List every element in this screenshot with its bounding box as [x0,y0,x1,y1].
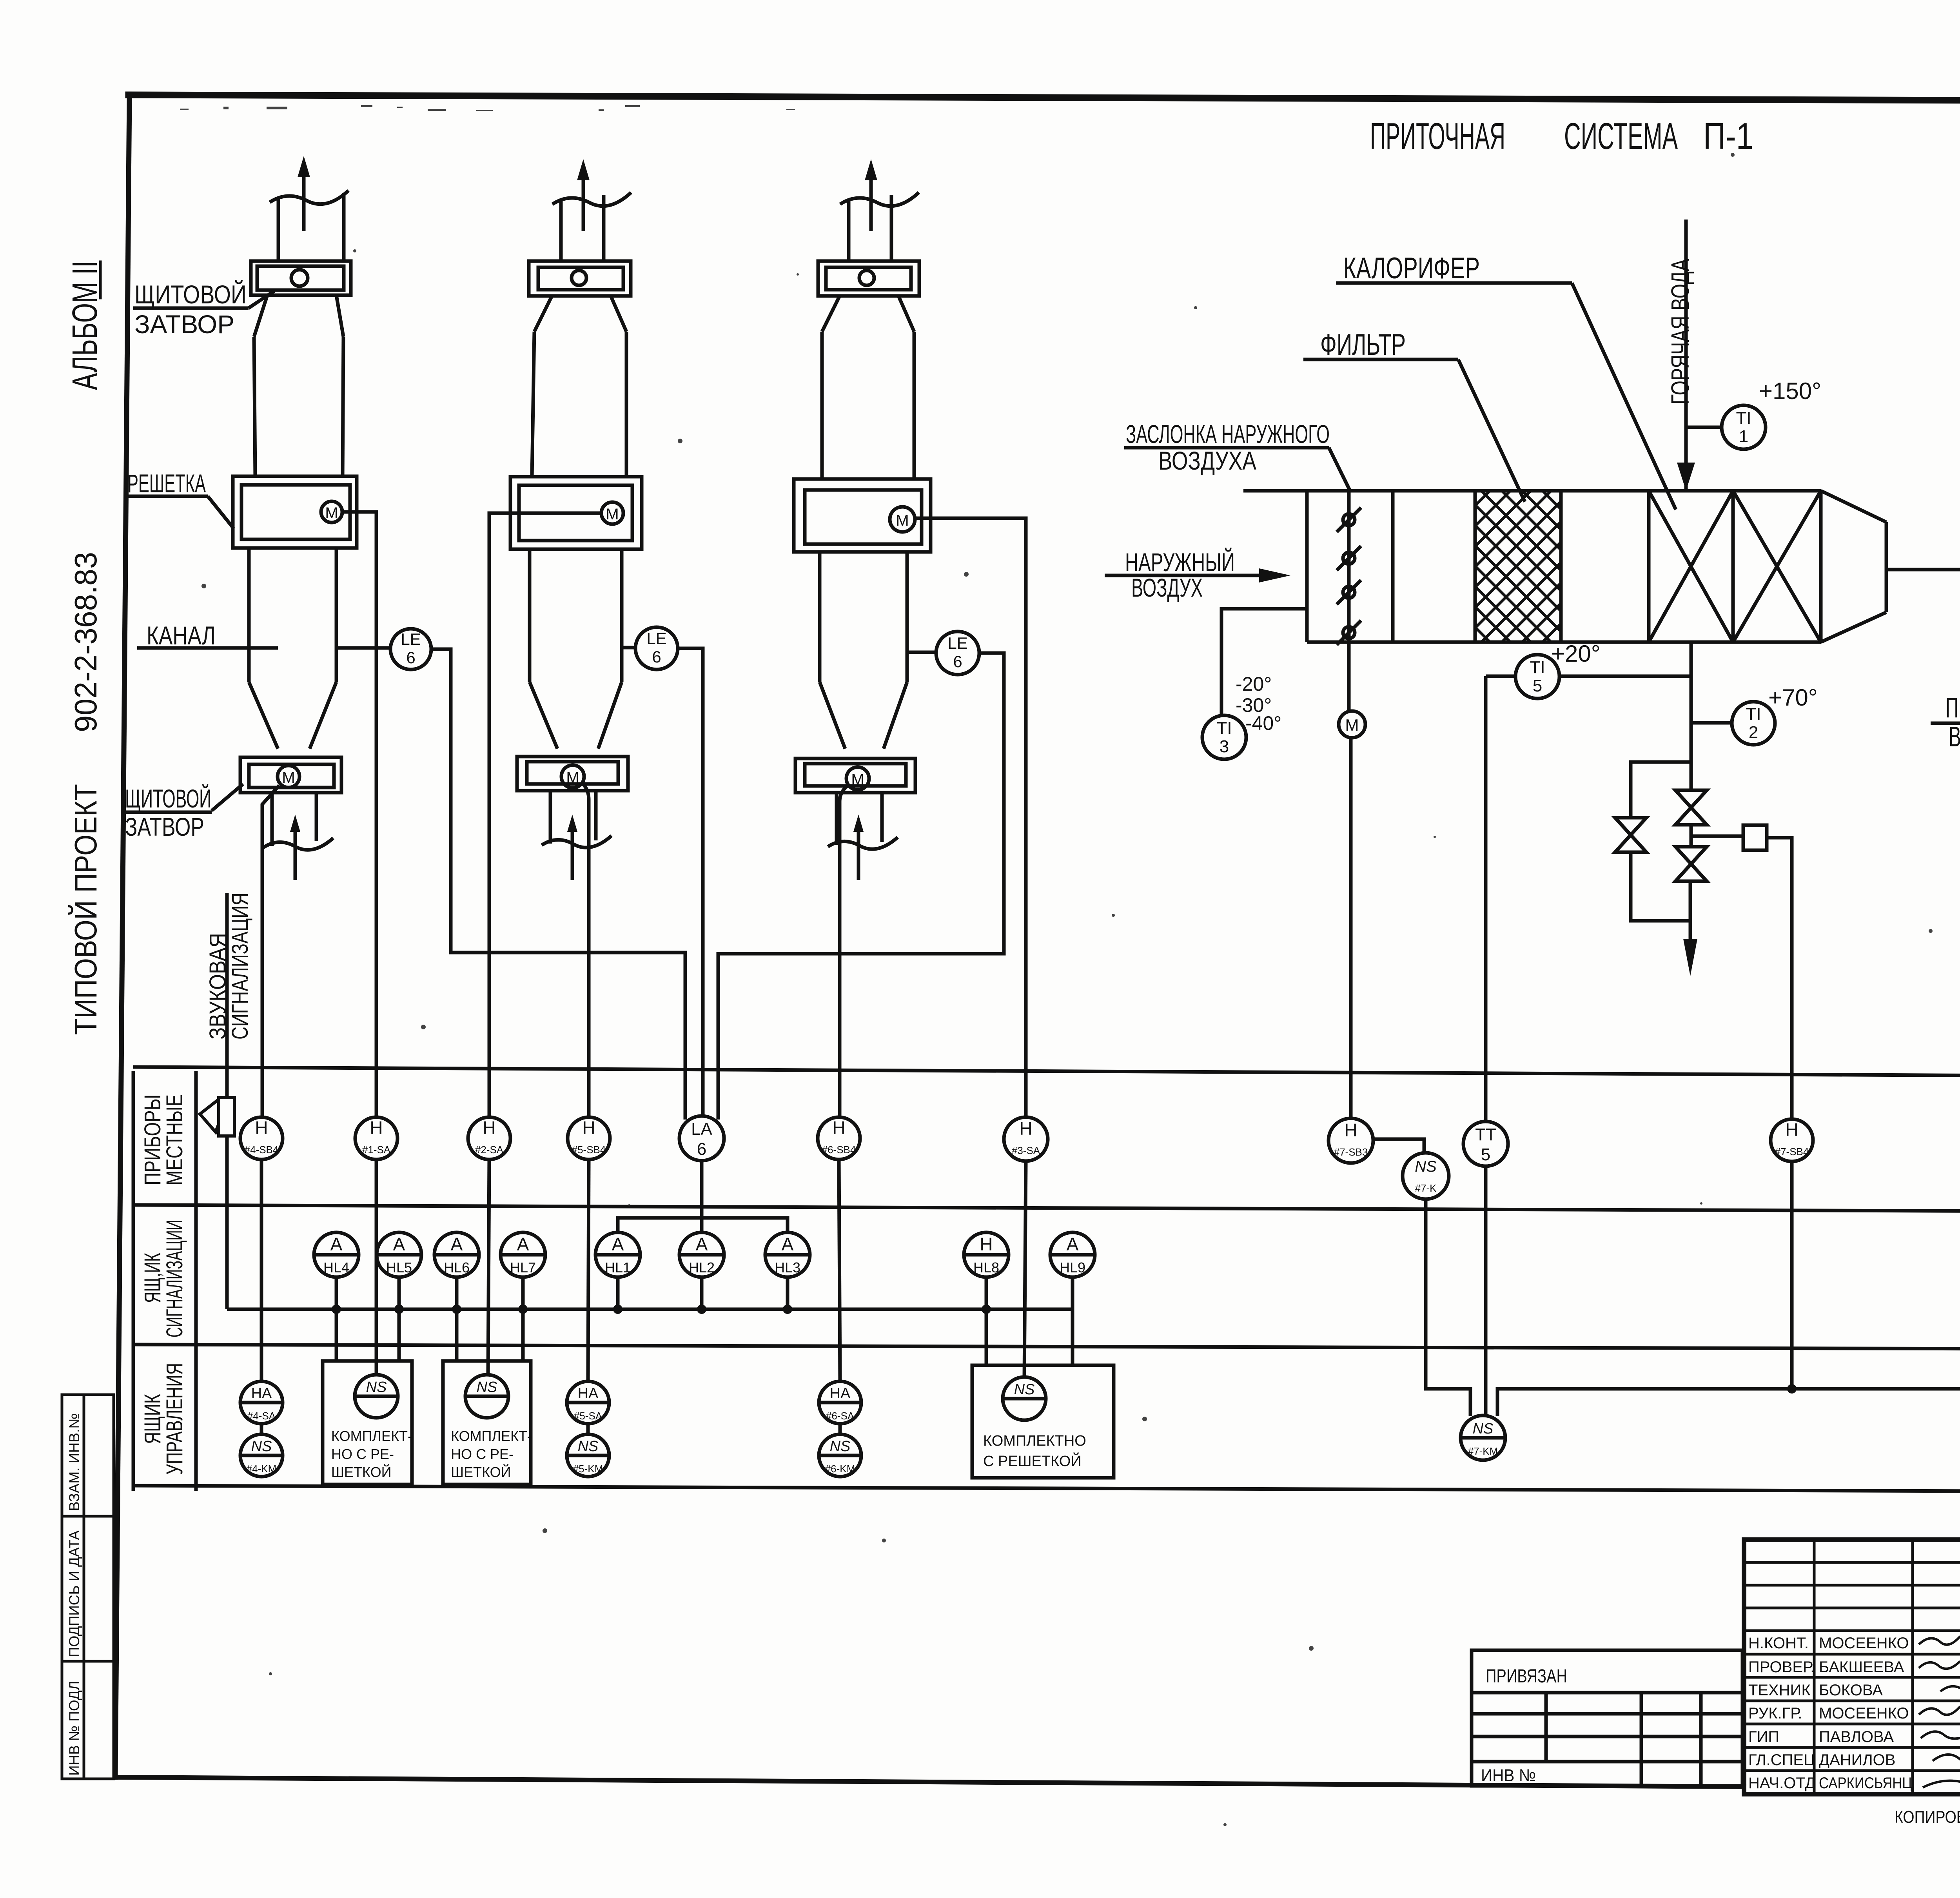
col1 gate valve (щитовой затвор) top [251,261,351,295]
svg-text:ЗАТВОР: ЗАТВОР [125,812,204,841]
wire col1 grille M to band [342,512,376,1118]
svg-text:HL3: HL3 [775,1259,800,1276]
col2 bottom duct [542,791,612,847]
row label Ящик управления [140,1363,187,1475]
grille column 3 [794,159,1026,1118]
bracket over HL1-HL3 [618,1218,788,1232]
svg-text:HA: HA [830,1385,851,1402]
col2 grille motor M [601,502,623,524]
svg-text:ШЕТКОЙ: ШЕТКОЙ [331,1464,391,1480]
svg-text:ГЛ.СПЕЦ: ГЛ.СПЕЦ [1748,1751,1815,1769]
lamp A HL5 [377,1232,421,1277]
svg-text:Н.КОНТ.: Н.КОНТ. [1748,1635,1809,1652]
col3 gate valve top [818,261,919,296]
audible alarm label звуковая сигнализация [205,893,253,1040]
col2 upper body [532,332,626,477]
col1 gate valve bottom [240,757,341,793]
title block grid left [1744,1540,1960,1794]
svg-text:ФИЛЬТР: ФИЛЬТР [1320,328,1406,361]
wire LE2 to LA6 [678,648,703,1117]
instrument H #7-SB3 [1328,1118,1373,1163]
label Щитовой затвор top [133,279,274,339]
row label Приборы местные [140,1094,187,1185]
svg-text:A: A [612,1234,624,1254]
svg-text:#7-K: #7-K [1415,1182,1437,1194]
svg-text:#7-SB3: #7-SB3 [1334,1146,1368,1158]
wire damper M to band [1349,738,1353,1118]
annunciator HA #4-SA [240,1381,283,1424]
svg-text:ЩИТОВОЙ: ЩИТОВОЙ [134,279,247,309]
label Канал [137,621,278,650]
svg-text:УПРАВЛЕНИЯ: УПРАВЛЕНИЯ [162,1363,187,1475]
grille column 2 [489,159,642,1118]
bypass branch [1631,762,1691,818]
svg-text:ГОРЯЧАЯ ВОДА: ГОРЯЧАЯ ВОДА [1666,259,1694,405]
wire col3 bottom gate M to band [840,786,848,1118]
lamp A HL7 [501,1232,545,1277]
col2 grille box [510,477,642,549]
svg-text:ВОЗДУХ: ВОЗДУХ [1131,573,1203,602]
svg-text:КАНАЛ: КАНАЛ [147,621,216,650]
svg-text:ПРОВЕР.: ПРОВЕР. [1748,1658,1815,1676]
svg-text:#7-SB4: #7-SB4 [1775,1146,1809,1158]
TITLEBLOCK [1472,1540,1960,1832]
level sensor LE 6 column 3 [908,631,979,675]
wire LE3 to LA6 [718,653,1004,1120]
svg-text:БАКШЕЕВА: БАКШЕЕВА [1819,1658,1904,1676]
bottom border [115,1777,1744,1787]
svg-text:HA: HA [251,1385,272,1402]
svg-text:5: 5 [1533,676,1542,695]
svg-text:TI: TI [1736,408,1751,428]
heater cross 2 [1733,491,1821,642]
svg-text:#2-SA: #2-SA [475,1144,504,1156]
svg-text:ТИПОВОЙ ПРОЕКТ: ТИПОВОЙ ПРОЕКТ [68,784,103,1035]
stamp box Инв № подл [62,1661,84,1779]
wire NS7K down [1426,1199,1470,1416]
svg-text:ИНВ № ПОДЛ: ИНВ № ПОДЛ [66,1681,82,1776]
svg-text:LE: LE [401,630,421,648]
svg-text:КОМПЛЕКТ-: КОМПЛЕКТ- [331,1428,412,1444]
svg-text:6: 6 [953,652,962,671]
svg-text:НАЧ.ОТД: НАЧ.ОТД [1748,1775,1816,1792]
svg-text:6: 6 [697,1140,706,1159]
instrument H #1-SA [355,1117,397,1159]
drain line with arrow [1683,881,1697,976]
thermometer TI 5 [1486,641,1691,699]
label Калорифер with leader [1336,252,1676,510]
link H7SB3 to NS7K [1373,1139,1424,1153]
svg-text:HL8: HL8 [973,1259,999,1276]
svg-text:САРКИСЬЯНЦ: САРКИСЬЯНЦ [1819,1775,1912,1792]
svg-text:LE: LE [947,634,967,652]
instrument H #5-SB4 [568,1117,610,1159]
svg-text:6: 6 [406,648,415,667]
svg-text:ИНВ №: ИНВ № [1481,1766,1536,1785]
svg-text:ДАНИЛОВ: ДАНИЛОВ [1819,1751,1895,1769]
label Приточный вентилятор [1931,599,1960,753]
svg-text:LA: LA [691,1120,712,1139]
svg-text:#4-SB4: #4-SB4 [245,1144,279,1156]
lamp A HL2 [679,1232,724,1277]
col3 gate valve bottom [795,758,915,793]
svg-text:NS: NS [366,1379,387,1395]
svg-text:МЕСТНЫЕ: МЕСТНЫЕ [162,1094,187,1185]
damper motor M [1339,711,1365,738]
svg-text:H: H [582,1118,595,1138]
fan suction line [1886,568,1960,572]
svg-text:МОСЕЕНКО: МОСЕЕНКО [1819,1635,1909,1652]
svg-text:#1-SA: #1-SA [362,1144,391,1156]
col3 bottom gate motor M [846,767,869,790]
starter NS #5-KM [567,1434,609,1477]
svg-text:TI: TI [1746,704,1761,724]
col3 top duct [840,192,919,262]
svg-text:H: H [370,1118,383,1138]
col3 lower funnel [820,682,907,749]
col1 grille box (решетка) [233,476,357,548]
col2 gate valve top [529,261,631,296]
col1 top flow arrow [298,156,310,231]
BAND [133,1067,1960,1493]
control bus row3 right [1497,1389,1960,1416]
col3 upper body [822,332,914,479]
label Фильтр with leader [1303,328,1525,502]
left border [115,96,129,1777]
wire H3SA to NS box3 [1024,1161,1026,1377]
svg-text:НО С РЕ-: НО С РЕ- [331,1446,394,1462]
col3 top flow arrow [865,159,877,231]
outside air thermometer connection [1221,609,1307,716]
svg-text:СИСТЕМА: СИСТЕМА [1564,115,1678,157]
svg-text:2: 2 [1749,723,1758,742]
svg-text:HL9: HL9 [1060,1259,1085,1276]
svg-text:NS: NS [251,1438,272,1455]
svg-text:HL2: HL2 [689,1259,715,1276]
annunciator HA #6-SA [819,1381,861,1424]
svg-text:A: A [782,1234,794,1254]
wire LE1 to LA6 [431,649,685,1120]
label Решетка [126,469,234,528]
bypass return [1631,852,1690,921]
wire LA6 to HL2 [700,1161,704,1232]
col1 bottom duct [263,793,333,850]
svg-text:HL5: HL5 [386,1259,412,1276]
annunciator HA #5-SA [567,1381,609,1424]
lamp drop wires [336,1277,1073,1365]
signatures [1919,1633,1960,1788]
svg-text:5: 5 [1481,1145,1490,1164]
svg-text:#6-KM: #6-KM [825,1463,855,1475]
привязан labels [1481,1666,1567,1785]
wire TI5 to TT5 [1484,676,1488,1122]
svg-text:NS: NS [477,1379,497,1395]
svg-text:СИГНАЛИЗАЦИЯ: СИГНАЛИЗАЦИЯ [227,893,253,1040]
title block outer [1744,1540,1960,1794]
col2 lower body [530,549,622,682]
svg-text:ЗАТВОР: ЗАТВОР [134,310,234,339]
wire valve line through band [1790,1161,1794,1389]
instrument NS #7-K [1403,1153,1449,1199]
col2 upper funnel [534,296,626,332]
svg-text:H: H [1785,1120,1798,1140]
instrument TT 5 [1463,1121,1508,1166]
svg-text:КАЛОРИФЕР: КАЛОРИФЕР [1343,252,1480,285]
stamp box Подпись и дата [62,1516,84,1661]
COLUMNS [124,156,1026,1136]
svg-text:#4-SA: #4-SA [247,1410,276,1422]
svg-text:КОПИРОВАЛ: КОПИРОВАЛ [1895,1807,1960,1827]
svg-text:КОМПЛЕКТНО: КОМПЛЕКТНО [983,1433,1086,1449]
wire H2SA to NS box2 [488,1159,489,1375]
thermometer TI 1 [1686,378,1821,449]
wire col1 bottom gate M to band [262,786,279,1118]
wire col2 grille M to band [489,513,601,1118]
row label Ящик сигнализации [140,1220,187,1337]
svg-text:М: М [851,771,864,788]
svg-text:H: H [483,1118,495,1138]
svg-text:ПАВЛОВА: ПАВЛОВА [1819,1728,1894,1746]
col2 bottom flow arrow [567,815,577,880]
svg-text:HL7: HL7 [510,1259,536,1276]
col3 lower body [820,552,907,682]
AHU [1105,220,1960,1389]
svg-text:КОМПЛЕКТ-: КОМПЛЕКТ- [451,1428,532,1444]
instrument H #3-SA [1004,1117,1048,1161]
svg-text:3: 3 [1220,737,1229,756]
col1 upper funnel [254,295,343,337]
svg-text:ВЕНТИЛЯТОР: ВЕНТИЛЯТОР [1949,721,1960,753]
control valve upper [1675,790,1707,825]
svg-text:М: М [325,504,338,522]
svg-text:ЩИТОВОЙ: ЩИТОВОЙ [125,784,211,813]
svg-text:МОСЕЕНКО: МОСЕЕНКО [1819,1705,1909,1722]
svg-text:NS: NS [1415,1158,1437,1175]
valve actuator line [1691,835,1743,838]
label горячая вода (rotated) [1666,259,1694,405]
col1 grille motor M [321,501,342,523]
svg-text:АЛЬБОМ II: АЛЬБОМ II [65,261,105,390]
lamp A HL9 [1050,1232,1095,1277]
svg-text:1: 1 [1739,427,1748,446]
top border [129,95,1960,102]
svg-text:TI: TI [1216,719,1232,738]
staff rows [1748,1635,1912,1792]
svg-text:#5-KM: #5-KM [573,1463,603,1475]
svg-text:БОКОВА: БОКОВА [1819,1682,1883,1699]
instrument H #2-SA [468,1117,510,1159]
svg-text:ПРИТОЧНЫЙ: ПРИТОЧНЫЙ [1945,691,1960,724]
lamp A HL4 [314,1232,359,1277]
wire H1SA to NS box1 [375,1159,378,1375]
svg-text:LE: LE [646,629,666,648]
label Заслонка наружного воздуха with leader [1124,419,1351,492]
копировал line [1895,1804,1960,1832]
svg-text:A: A [517,1234,529,1254]
svg-text:NS: NS [578,1438,599,1455]
grille column 1 [233,156,376,1118]
AHU casing [1243,491,1821,642]
svg-text:ВОЗДУХА: ВОЗДУХА [1158,446,1256,475]
col2 lower funnel [530,682,622,749]
col3 grille motor M [890,507,915,532]
svg-text:С РЕШЕТКОЙ: С РЕШЕТКОЙ [983,1452,1082,1470]
svg-text:#6-SA: #6-SA [826,1410,855,1422]
svg-text:A: A [1067,1234,1079,1254]
svg-text:М: М [896,512,909,529]
thermometer TI 3 [1202,673,1281,759]
lamp H HL8 [964,1232,1009,1277]
col2 top flow arrow [577,159,590,231]
instrument LA 6 [679,1116,724,1161]
svg-text:#3-SA: #3-SA [1012,1145,1040,1156]
col2 top duct [552,192,631,262]
svg-text:H: H [1344,1120,1357,1140]
col2 bottom gate motor M [561,765,584,788]
label Щитовой затвор bottom [124,784,243,841]
control box 1 комплектно с решеткой [323,1361,412,1484]
svg-text:H: H [980,1234,993,1254]
svg-text:6: 6 [652,648,661,666]
wire col3 grille M to band [915,518,1026,1118]
stamp box Взам.инв№ [62,1395,84,1516]
svg-text:TT: TT [1475,1125,1496,1144]
starter NS #7-KM [1461,1415,1505,1460]
svg-text:+150°: +150° [1759,378,1821,404]
svg-text:A: A [696,1234,708,1254]
svg-text:ШЕТКОЙ: ШЕТКОЙ [451,1464,511,1480]
svg-text:TI: TI [1530,658,1545,677]
svg-text:H: H [832,1118,845,1138]
label Наружный воздух with arrow [1105,547,1290,602]
signal bus row2 [227,1136,1073,1309]
heater cross 1 [1649,491,1733,642]
col3 bottom flow arrow [853,815,864,880]
svg-text:#5-SB4: #5-SB4 [572,1144,606,1156]
svg-text:#5-SA: #5-SA [574,1410,603,1422]
lamp A HL3 [765,1232,810,1277]
svg-text:A: A [451,1234,463,1254]
col1 top duct [270,191,348,262]
col3 grille box [794,479,931,552]
svg-text:М: М [606,506,619,523]
svg-text:РУК.ГР.: РУК.ГР. [1748,1705,1802,1722]
svg-text:HL6: HL6 [444,1259,470,1276]
svg-text:ГИП: ГИП [1748,1728,1779,1746]
svg-text:М: М [282,769,295,786]
col1 bottom gate motor M [278,766,299,788]
svg-text:М: М [1345,716,1359,734]
svg-text:HL4: HL4 [323,1259,349,1276]
svg-text:ВЗАМ. ИНВ.№: ВЗАМ. ИНВ.№ [66,1413,82,1511]
svg-text:HL1: HL1 [605,1259,631,1276]
col3 upper funnel [822,296,914,332]
svg-text:-40°: -40° [1245,712,1281,734]
bus junction dots [332,1305,991,1314]
instrument H #4-SB4 [240,1117,283,1159]
instrument H #7-SB4 row1 [1771,1119,1813,1161]
svg-text:NS: NS [1014,1381,1035,1398]
svg-text:H: H [255,1118,268,1138]
svg-text:A: A [330,1234,343,1254]
привязан table [1472,1650,1742,1786]
wire H5SB4 chain [588,1159,589,1434]
wire col2 bottom gate M to band [583,784,589,1118]
svg-text:ТЕХНИК: ТЕХНИК [1748,1682,1811,1699]
svg-text:#4-KM: #4-KM [247,1463,277,1475]
bus dots row3 [1787,1384,1960,1394]
svg-text:ЗАСЛОНКА НАРУЖНОГО: ЗАСЛОНКА НАРУЖНОГО [1126,419,1330,448]
svg-text:#6-SB4: #6-SB4 [822,1144,856,1156]
heater return pipe [1690,642,1693,790]
svg-text:НАРУЖНЫЙ: НАРУЖНЫЙ [1125,547,1235,577]
col1 lower body [249,548,336,682]
thermometer TI 2 [1691,684,1818,745]
col3 bottom duct [828,793,898,849]
control box 2 комплектно с решеткой [443,1361,532,1484]
inlet damper blades [1337,491,1361,645]
TITLE [1370,115,1753,157]
wire H6SB4 chain [839,1159,840,1434]
wire audible alarm [225,893,229,1098]
svg-text:ПРИТОЧНАЯ: ПРИТОЧНАЯ [1370,115,1505,157]
col1 lower funnel [249,682,336,749]
wire damper M [1347,642,1351,711]
level sensor LE 6 column 2 [622,627,678,670]
svg-text:#7-KM: #7-KM [1468,1445,1498,1457]
AHU section dividers [1393,491,1733,642]
hot water line [1677,220,1695,491]
horn symbol [200,1098,234,1136]
col1 bottom flow arrow [290,815,300,880]
svg-text:A: A [393,1234,405,1254]
svg-text:902-2-368.83: 902-2-368.83 [68,552,103,732]
svg-text:HA: HA [578,1385,599,1402]
svg-text:М: М [566,769,579,786]
svg-text:П-1: П-1 [1703,115,1753,157]
instrument H #6-SB4 [818,1117,860,1159]
wire actuator to band [1767,838,1792,1118]
valve actuator box [1743,825,1767,850]
svg-text:ПОДПИСЬ И ДАТА: ПОДПИСЬ И ДАТА [66,1530,82,1657]
level sensor LE 6 column 1 [337,629,431,670]
svg-text:НО С РЕ-: НО С РЕ- [451,1446,514,1462]
starter NS #4-KM [240,1434,283,1477]
svg-text:NS: NS [830,1438,851,1455]
starter NS #6-KM [819,1434,861,1477]
wire TT5 down [1484,1166,1488,1416]
svg-text:РЕШЕТКА: РЕШЕТКА [127,469,206,498]
lamp A HL1 [595,1232,640,1277]
svg-text:ПРИВЯЗАН: ПРИВЯЗАН [1486,1666,1567,1687]
lamp A HL6 [434,1232,479,1277]
wire H4SB4 chain [260,1159,263,1434]
control box 3 комплектно с решеткой [972,1365,1114,1478]
outlet cone [1821,491,1886,642]
svg-text:+70°: +70° [1768,684,1818,711]
svg-text:NS: NS [1473,1421,1494,1437]
svg-text:-20°: -20° [1236,673,1272,695]
svg-text:+20°: +20° [1551,641,1601,667]
col2 gate valve bottom [517,757,628,791]
svg-text:H: H [1019,1118,1032,1139]
col1 upper body [254,337,343,476]
bypass valve [1615,818,1646,852]
band box [133,1067,1960,1493]
control valve lower [1675,825,1707,881]
svg-text:СИГНАЛИЗАЦИИ: СИГНАЛИЗАЦИИ [162,1220,187,1337]
